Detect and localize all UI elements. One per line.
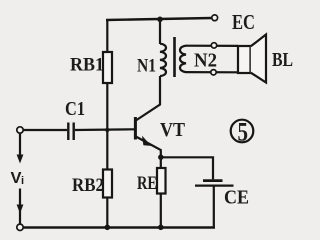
- inductor N1 (transformer primary): [160, 44, 166, 76]
- wire: C1 to base: [75, 128, 134, 131]
- terminal: N2 top: [211, 43, 216, 48]
- wire: RE bottom lead: [160, 194, 162, 228]
- wire: RE top lead: [160, 157, 162, 168]
- svg-text:EC: EC: [232, 10, 255, 34]
- svg-text:N1: N1: [137, 56, 156, 77]
- svg-text:VT: VT: [160, 119, 186, 141]
- transistor VT emitter arrow: [142, 136, 151, 146]
- wire: RB1 bottom lead to base node: [106, 83, 108, 131]
- wire: RB1 top lead: [106, 19, 108, 52]
- inductor N2 (transformer secondary): [180, 46, 186, 72]
- transformer core: [173, 37, 176, 77]
- svg-text:CE: CE: [224, 187, 249, 209]
- node: RB2 ground junction dot: [105, 225, 111, 231]
- terminal EC: [212, 15, 218, 21]
- node: N1 rail junction dot: [157, 17, 163, 23]
- svg-text:BL: BL: [272, 49, 293, 71]
- transistor VT emitter lead: [136, 137, 161, 158]
- arrow: input lower (down): [17, 205, 24, 214]
- node: base junction dot: [105, 128, 109, 132]
- svg-text:5: 5: [238, 118, 249, 147]
- resistor RB1: [103, 52, 112, 83]
- transistor VT collector lead: [136, 76, 160, 121]
- terminal: input bottom: [17, 224, 23, 230]
- arrow: input upper (down): [17, 155, 24, 164]
- svg-text:RB2: RB2: [72, 175, 104, 196]
- transistor VT base bar: [134, 117, 137, 140]
- wire: bottom ground rail: [23, 226, 215, 228]
- wire: CE bottom lead: [213, 187, 215, 228]
- capacitor C1: [67, 123, 69, 141]
- resistor RB2: [103, 170, 112, 198]
- wire: top supply rail: [106, 18, 212, 20]
- wire: input lead to C1: [24, 129, 68, 131]
- wire: RB2 bottom lead: [106, 198, 108, 228]
- terminal: N2 bottom: [211, 70, 216, 75]
- capacitor CE bottom plate: [195, 185, 234, 187]
- capacitor CE top plate: [203, 179, 223, 182]
- terminal: input top: [17, 127, 23, 133]
- svg-text:C1: C1: [65, 98, 85, 120]
- svg-text:RB1: RB1: [70, 55, 104, 76]
- svg-text:i: i: [21, 175, 24, 187]
- wire: RB2 top lead: [106, 130, 108, 170]
- wire: N2 top lead: [186, 45, 239, 47]
- speaker BL driver box: [238, 46, 251, 73]
- figure number circle 5: [231, 120, 254, 143]
- node: RE ground junction dot: [158, 225, 164, 231]
- wire: input source upper segment: [19, 134, 21, 157]
- svg-text:RE: RE: [137, 173, 157, 194]
- wire: emitter node to CE: [161, 157, 213, 179]
- svg-text:N2: N2: [194, 50, 217, 72]
- wire: N1 top lead: [159, 19, 161, 45]
- wire: N2 bottom lead: [186, 71, 239, 73]
- wire: input source lower segment: [19, 189, 21, 225]
- speaker BL cone: [251, 35, 266, 83]
- node: emitter junction dot: [158, 155, 163, 160]
- resistor RE: [157, 168, 166, 194]
